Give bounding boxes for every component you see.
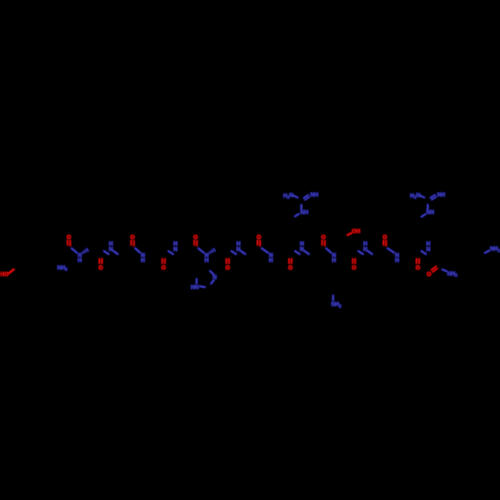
arginine-2 guanidinium C=NH double bond: [430, 195, 437, 200]
svg-text:H: H: [78, 258, 82, 264]
N-C bond half (down-left) amide 10: [358, 251, 363, 254]
C-N bond half near N, amide 3: [135, 248, 140, 252]
tyrosine phenol HO label: [0, 272, 8, 278]
svg-text:NH: NH: [426, 210, 434, 216]
imidazole C4-N3 bond half: [210, 271, 214, 275]
carbonyl O (up) of amide 11: [383, 235, 387, 241]
svg-text:H: H: [332, 258, 336, 264]
C=O double bond (up) of amide 3: [131, 240, 134, 246]
C=O double bond (up) of amide 5: [194, 240, 197, 246]
svg-text:N: N: [426, 247, 430, 253]
svg-text:O: O: [288, 266, 292, 272]
C=O double bond (down) of amide 6: [226, 258, 229, 264]
carbonyl O (up) of amide 1: [67, 235, 71, 241]
arginine-1 guanidinium =NH label: [310, 193, 318, 199]
svg-text:HN: HN: [191, 285, 199, 291]
C-N bond half near N, amide 7: [262, 248, 268, 252]
lysine-2 NH2 label: [490, 247, 500, 253]
tyrosine alpha amine NH2: [57, 265, 68, 271]
svg-text:OH: OH: [352, 229, 360, 235]
lysine-1 NH2 label: [331, 302, 342, 308]
N-C bond half (down-left) amide 4: [169, 251, 174, 254]
serine C-O bond half: [348, 233, 352, 235]
svg-text:H: H: [269, 258, 273, 264]
arginine-2 guanidinium =NH label: [437, 193, 445, 199]
svg-text:O: O: [161, 266, 165, 272]
C-N bond half near N, amide 11: [388, 248, 395, 252]
imidazole N1-C5 bond half: [196, 279, 198, 284]
C-N bond half near N, amide 5: [198, 248, 203, 252]
N-alphaC bond half (down-right) amide 2: [113, 251, 118, 254]
svg-text:NH2: NH2: [490, 247, 500, 253]
svg-text:NH2: NH2: [447, 271, 458, 277]
amide N label (H over N) 6: [236, 242, 240, 253]
lysine-2 CH2-N bond half: [485, 251, 489, 253]
arginine-2 guanidinium NH (epsilon) label: [426, 210, 434, 216]
svg-text:H: H: [141, 258, 145, 264]
svg-text:O: O: [226, 266, 230, 272]
C-terminal amide C=O double bond: [432, 267, 438, 272]
amide N label (N over H) 5: [205, 253, 209, 264]
C=O double bond (down) of amide 8: [289, 258, 292, 264]
N-alphaC bond half (down-right) amide 8: [304, 251, 309, 254]
svg-text:H2N: H2N: [410, 193, 420, 200]
C=O double bond (up) of amide 7: [258, 240, 261, 246]
svg-text:N: N: [236, 247, 240, 253]
amide N label (N over H) 7: [269, 253, 273, 264]
svg-text:N: N: [173, 247, 177, 253]
lysine-1 C-N bond half: [332, 296, 334, 301]
carbonyl O (down) of amide 10: [352, 266, 356, 272]
svg-text:N: N: [109, 247, 113, 253]
arginine-1 guanidinium H2N-C bond half: [294, 196, 298, 198]
svg-text:O: O: [99, 266, 103, 272]
arginine-1 guanidinium NH-CH2 bond half: [295, 214, 299, 216]
arginine-2 guanidinium NH-CH2 bond half: [422, 214, 426, 216]
amide N label (N over H) 9: [332, 253, 336, 264]
carbonyl O (up) of amide 3: [130, 235, 134, 241]
carbonyl O (up) of amide 5: [193, 235, 197, 241]
C=O double bond (down) of amide 4: [162, 258, 165, 264]
histidine imidazole N3 label: [213, 275, 217, 281]
carbonyl O (down) of amide 6: [226, 266, 230, 272]
C=O double bond (up) of amide 1: [68, 240, 71, 246]
serine OH label: [352, 229, 360, 235]
svg-text:NH2: NH2: [57, 265, 68, 271]
C=O double bond (up) of amide 11: [384, 240, 387, 246]
C=O double bond (down) of amide 2: [100, 258, 103, 264]
N-alphaC bond half (down-right) amide 10: [368, 251, 373, 254]
imidazole N3-C2 bond half: [211, 280, 214, 284]
amide N label (N over H) 11: [395, 253, 399, 264]
svg-text:NH2: NH2: [331, 302, 342, 308]
amide N label (N over H) 1: [78, 253, 82, 264]
C-terminal amide O label: [427, 272, 431, 278]
svg-text:N: N: [300, 247, 304, 253]
C-N bond half near N, amide 9: [326, 248, 331, 252]
carbonyl O (down) of amide 8: [288, 266, 292, 272]
C=O double bond (down) of amide 10: [353, 258, 355, 264]
svg-text:H: H: [205, 258, 209, 264]
arginine-1 guanidinium H2N label: [283, 193, 293, 200]
histidine imidazole N1 HN label: [191, 285, 199, 291]
svg-text:H2N: H2N: [283, 193, 293, 200]
C=O double bond (up) of amide 9: [322, 240, 325, 246]
amide N label (H over N) 10: [363, 242, 367, 253]
svg-text:NH: NH: [310, 193, 318, 199]
C-N bond half near N, amide 1: [72, 248, 77, 252]
arginine-2 guanidinium H2N-C bond half: [420, 196, 424, 198]
carbonyl O (up) of amide 9: [321, 235, 325, 241]
N-C bond half (down-left) amide 12: [421, 251, 426, 254]
C=O double bond (down) of amide 12: [417, 258, 420, 264]
svg-text:NH: NH: [300, 210, 308, 216]
arginine-1 guanidinium NH (epsilon) label: [300, 210, 308, 216]
amide N label (H over N) 2: [109, 242, 113, 253]
amide N label (N over H) 3: [141, 253, 145, 264]
hashed stereo bond from N 5 to alpha C: [208, 248, 215, 254]
amide N label (H over N) 12: [426, 242, 430, 253]
N-C bond half (down-left) amide 6: [232, 251, 237, 254]
arginine-2 guanidinium H2N label: [410, 193, 420, 200]
svg-text:O: O: [427, 272, 431, 278]
svg-text:H: H: [395, 258, 399, 264]
arginine-1 guanidinium C=NH double bond: [303, 195, 310, 200]
amide N label (H over N) 8: [300, 242, 304, 253]
hashed stereo bond from N 1 to alpha C: [81, 248, 88, 254]
carbonyl O (down) of amide 12: [416, 266, 420, 272]
svg-text:NH: NH: [437, 193, 445, 199]
svg-text:N: N: [363, 247, 367, 253]
imidazole N1-C2 bond half: [200, 285, 205, 288]
carbonyl O (down) of amide 2: [99, 266, 103, 272]
C-terminal amide C-N bond half: [442, 269, 446, 271]
carbonyl O (down) of amide 4: [161, 266, 165, 272]
N-C bond half (down-left) amide 8: [295, 251, 300, 254]
svg-text:O: O: [416, 266, 420, 272]
svg-text:HO: HO: [0, 272, 8, 278]
C-terminal amide NH2 label: [447, 271, 458, 277]
N-alphaC bond half (down-right) amide 6: [241, 251, 246, 254]
carbonyl O (up) of amide 7: [257, 235, 261, 241]
arginine-1 guanidinium C-N vertical bond: [300, 205, 302, 209]
arginine-2 guanidinium C-N vertical bond: [427, 205, 429, 210]
amide N label (H over N) 4: [173, 242, 177, 253]
svg-text:O: O: [352, 266, 356, 272]
N-C bond half (down-left) amide 2: [104, 251, 109, 254]
phenol C-O bond half: [9, 269, 14, 273]
